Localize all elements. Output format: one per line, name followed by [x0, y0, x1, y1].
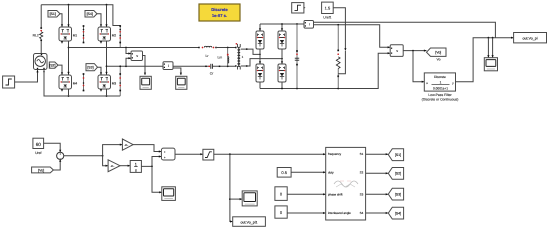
svg-text:[S1]: [S1]: [50, 12, 56, 16]
svg-text:1: 1: [135, 163, 137, 167]
wire V1 to scope: [142, 56, 145, 75]
mosfet M2: [98, 27, 111, 41]
svg-text:frequency: frequency: [328, 152, 342, 156]
Goto tag S4: [388, 207, 403, 219]
wire to scope f: [230, 198, 242, 200]
junction: [281, 88, 283, 90]
svg-text:+: +: [164, 155, 166, 159]
svg-text:Vo: Vo: [437, 58, 441, 62]
svg-text:S2: S2: [360, 170, 364, 174]
svg-text:Uref1: Uref1: [323, 15, 331, 19]
svg-text:1e-07 s.: 1e-07 s.: [212, 13, 227, 18]
current signal wire long: [314, 22, 496, 38]
svg-text:60: 60: [36, 142, 42, 147]
svg-text:s: s: [135, 168, 137, 172]
wire 0 to phase shift: [287, 193, 325, 195]
wire S2 to M4 gate: [58, 65, 62, 74]
wire 0 to interleaved angle: [287, 212, 325, 214]
junction: [102, 155, 104, 157]
wire S3 to M3 gate: [98, 67, 102, 74]
Goto tag S3: [388, 188, 403, 200]
svg-text:-K-: -K-: [124, 143, 128, 147]
junction: [488, 37, 490, 39]
wire integrator branch to scope: [152, 166, 161, 192]
mosfet M3: [98, 75, 111, 89]
svg-text:-: -: [60, 156, 61, 160]
junction: [106, 65, 108, 67]
voltage measurement V1: [131, 51, 143, 61]
wire source plus up to RL2: [40, 41, 42, 54]
constant 1.5 block: [322, 2, 334, 13]
svg-text:1.5: 1.5: [325, 6, 331, 11]
svg-text:M3: M3: [112, 82, 117, 86]
bridge output rail A: [69, 47, 200, 49]
junction: [68, 47, 70, 49]
wire step to AC source: [15, 70, 38, 82]
wire 60 to sum: [44, 143, 61, 152]
wire junctions to scope: [487, 38, 489, 58]
svg-text:interleaved angle: interleaved angle: [328, 211, 351, 215]
svg-text:RL2: RL2: [33, 34, 39, 38]
wire branch to I gain: [103, 156, 108, 166]
svg-text:S4: S4: [360, 211, 364, 215]
svg-text:Lm: Lm: [217, 55, 222, 59]
gain Ki: [108, 160, 120, 172]
outport out.Vo_pi: [514, 33, 547, 43]
gain Kp: [122, 139, 133, 150]
Goto tag Vo: [427, 48, 447, 56]
M3 m-port stub: [100, 89, 102, 91]
diode D4: [278, 64, 286, 82]
svg-text:1: 1: [440, 80, 442, 84]
svg-text:[S2]: [S2]: [49, 63, 55, 67]
outport out.Vo_pi1: [233, 217, 266, 227]
wire branch down to scope and outport: [230, 154, 232, 221]
M4 m-port stub: [61, 89, 63, 91]
svg-text:phase shift: phase shift: [328, 192, 343, 196]
M2 m-port stub: [100, 41, 102, 43]
scope f: [242, 191, 257, 206]
wire sum to gains: [64, 155, 103, 157]
scope Vo: [484, 58, 497, 71]
svg-text:M2: M2: [112, 34, 117, 38]
rail A to transformer: [216, 47, 235, 49]
wire 0.5 to duty: [291, 171, 325, 173]
junction: [412, 50, 414, 52]
svg-text:out.Vo_pi1: out.Vo_pi1: [241, 220, 258, 224]
svg-text:0.5: 0.5: [281, 170, 287, 175]
svg-text:M1: M1: [73, 34, 78, 38]
M4 source wire: [68, 89, 70, 96]
wire S3 to tag: [366, 193, 388, 195]
svg-text:S3: S3: [360, 192, 364, 196]
svg-text:-K-: -K-: [110, 164, 114, 168]
secondary bottom rail: [260, 53, 390, 88]
wire RL2 to top rail: [40, 5, 42, 28]
powergui block: [199, 4, 240, 21]
secondary left leg wires: [259, 24, 261, 31]
wire Kp to sum2: [133, 145, 161, 152]
svg-text:[Vo]: [Vo]: [435, 51, 441, 55]
voltage measurement V2: [390, 45, 403, 57]
wire sum2 to saturation: [175, 153, 202, 155]
wire saturation to PWM frequency: [214, 153, 325, 155]
saturation block: [203, 149, 214, 160]
magnetizing inductance Lm: [227, 48, 229, 67]
scope PI: [162, 187, 176, 201]
wire top rail to M1 drain: [68, 5, 70, 27]
current measurement I1: [163, 62, 173, 70]
wire 1.5 to load: [333, 8, 345, 50]
current measurement I2: [304, 21, 314, 29]
constant 0.5 block: [277, 168, 291, 178]
constant 60 block: [33, 138, 44, 148]
AC controlled voltage source: [34, 54, 48, 70]
svg-text:v: v: [396, 49, 398, 53]
junction: [229, 153, 231, 155]
right leg mid wire: [106, 41, 108, 75]
diode D1: [256, 31, 264, 49]
sum2 add block: [161, 148, 175, 160]
snubber branch M1: [83, 26, 85, 44]
left leg mid wire: [68, 41, 70, 75]
wire V2 output: [403, 50, 426, 52]
svg-text:Discrete: Discrete: [211, 7, 228, 12]
wire S4 top rail to M2 drain: [106, 5, 108, 27]
From tag S2: [49, 62, 58, 68]
low pass filter block: [424, 73, 455, 91]
transformer T1: [235, 47, 237, 49]
PWM interior sketch: [334, 181, 358, 187]
junction: [337, 24, 339, 26]
junction: [151, 166, 153, 168]
svg-text:+: +: [59, 152, 61, 156]
junction: [229, 198, 231, 200]
inductor Lr: [198, 47, 200, 49]
scope Vab: [140, 76, 151, 89]
secondary top rail: [260, 23, 304, 25]
diode D2: [278, 31, 286, 49]
capacitor Cr: [208, 65, 210, 67]
sum junction block: [57, 152, 64, 159]
svg-text:[S3]: [S3]: [87, 66, 93, 70]
junction: [281, 23, 283, 25]
wire V2 to low pass filter: [413, 51, 424, 82]
wire S1 to tag: [366, 153, 388, 155]
svg-text:0.0001s+1: 0.0001s+1: [433, 86, 448, 90]
wire source minus to bottom rail: [44, 70, 120, 97]
step block secondary: [292, 3, 304, 13]
PWM generator block: [326, 147, 366, 220]
wire S1 to M1 gate: [60, 14, 62, 27]
svg-text:duty: duty: [328, 170, 334, 174]
wire to voltage measurement minus: [126, 58, 131, 66]
M3 source wire: [106, 89, 108, 96]
bridge output rail B: [107, 65, 164, 67]
transformer secondary top wire: [241, 49, 260, 54]
svg-text:[S4]: [S4]: [87, 12, 93, 16]
junction: [119, 65, 121, 67]
load inductor segment: [338, 51, 345, 74]
wire integrator to sum2: [141, 157, 161, 167]
svg-text:v: v: [136, 54, 138, 58]
svg-text:Low-Pass Filter: Low-Pass Filter: [428, 93, 452, 97]
load branch RL: [337, 25, 339, 50]
svg-text:[Vo]: [Vo]: [38, 168, 44, 172]
Goto tag S2: [388, 168, 403, 180]
snubber branch M3: [119, 66, 121, 96]
integrator block: [130, 161, 141, 173]
svg-text:(Discrete or Continuous): (Discrete or Continuous): [422, 98, 459, 102]
M1 m-port stub: [61, 41, 63, 43]
junction: [68, 95, 70, 97]
svg-text:[S4]: [S4]: [395, 211, 401, 215]
wire to voltage measurement plus: [126, 48, 131, 54]
svg-text:[S1]: [S1]: [395, 153, 401, 157]
wire Ki to integrator: [120, 165, 130, 167]
constant 0 interleave block: [275, 206, 287, 218]
secondary right leg wires: [281, 24, 283, 31]
svg-text:+: +: [164, 150, 166, 154]
rail B after Cr: [212, 65, 235, 67]
junction: [125, 47, 127, 49]
From tag S1: [48, 11, 60, 18]
constant 0 phase block: [275, 187, 287, 201]
junction: [68, 4, 70, 6]
svg-text:M4: M4: [73, 82, 78, 86]
junction: [259, 54, 261, 56]
svg-text:Discrete: Discrete: [434, 75, 446, 79]
wire S4 to M2 gate: [97, 14, 101, 27]
wire I1 to scope: [173, 68, 181, 75]
diode D3: [256, 64, 264, 82]
junction: [281, 58, 283, 60]
step source block: [3, 76, 15, 88]
top rail wire: [41, 5, 120, 26]
wire Vo to sum: [53, 160, 60, 170]
Goto tag S1: [388, 149, 403, 161]
snubber branch M4: [83, 74, 85, 92]
transformer secondary bottom wire: [241, 59, 282, 66]
From tag S3: [86, 64, 98, 71]
wire LPF to out block: [456, 38, 514, 82]
mosfet M1: [59, 27, 72, 41]
svg-text:[S3]: [S3]: [395, 192, 401, 196]
From tag S4: [85, 11, 97, 18]
snubber branch M2: [119, 26, 121, 48]
rail B continue to Cr: [173, 65, 209, 67]
mosfet M4: [59, 75, 72, 89]
output capacitor Co branch: [296, 24, 298, 89]
From tag Vo: [32, 167, 54, 173]
svg-text:S1: S1: [360, 152, 364, 156]
wire S4 to tag: [366, 212, 388, 214]
svg-text:Uref: Uref: [35, 151, 41, 155]
svg-text:[S2]: [S2]: [395, 172, 401, 176]
series RL branch RL2: [40, 27, 42, 29]
scope Iab: [176, 76, 187, 89]
output rail to load and voltmeter: [314, 25, 390, 48]
svg-text:out.Vo_pi: out.Vo_pi: [523, 37, 538, 41]
wire branch to P gain: [103, 145, 122, 156]
wire S2 to tag: [366, 172, 388, 174]
